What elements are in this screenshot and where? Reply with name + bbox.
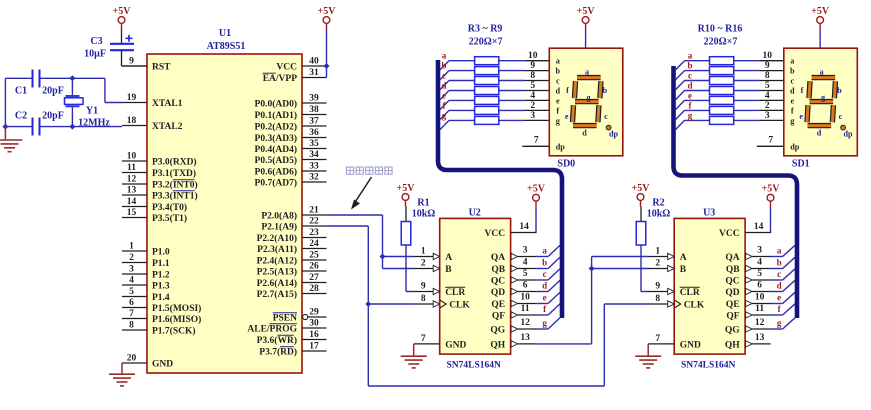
svg-text:A: A [445,253,452,263]
node: ground junction [2,124,8,130]
svg-text:5: 5 [757,269,762,279]
capacitor C2 20pF [15,111,64,136]
svg-text:c: c [790,77,794,86]
svg-text:32: 32 [309,173,319,183]
svg-text:7: 7 [655,334,660,344]
svg-text:QG: QG [490,325,505,335]
svg-text:b: b [556,67,561,76]
svg-text:d: d [582,128,587,137]
svg-text:dp: dp [609,129,619,138]
svg-text:c: c [543,269,547,279]
U1 pin 8 P1.7(SCK) [122,321,196,337]
svg-text:9: 9 [765,61,770,71]
svg-text:SN74LS164N: SN74LS164N [447,360,502,370]
U1 pin 30 ALE/PROG [247,319,326,335]
svg-text:2: 2 [129,253,134,263]
svg-text:P1.7(SCK): P1.7(SCK) [152,325,196,336]
svg-text:18: 18 [127,116,137,126]
resistor row f (SD1) [676,100,784,119]
U3 pin 4 QB [726,258,771,275]
svg-text:8: 8 [765,71,770,81]
svg-text:P3.6(WR): P3.6(WR) [257,335,297,346]
wire net P2.1(A9) clock line [327,226,649,386]
label R3 ~ R9 220ohm x7 [468,24,503,48]
svg-text:P2.3(A11): P2.3(A11) [257,244,297,255]
U3 pin 2 B [649,259,687,275]
svg-text:17: 17 [309,342,319,352]
svg-text:24: 24 [309,239,319,249]
U2 pin 2 B [414,259,452,275]
pin 7 dp stub (SD0) [522,135,549,146]
svg-text:12: 12 [755,318,765,328]
svg-text:e: e [565,112,569,121]
svg-text:f: f [801,86,804,95]
svg-text:9: 9 [655,282,660,292]
svg-text:P1.4: P1.4 [152,293,170,303]
svg-text:QC: QC [725,276,739,286]
U1 pin 3 P1.2 [122,265,170,281]
ground (U1) [109,374,135,386]
svg-text:b: b [837,86,842,95]
svg-text:16: 16 [309,330,319,340]
U2 pin 6 QD [491,281,536,298]
svg-text:10µF: 10µF [84,49,106,60]
resistor row e (SD0) [440,90,549,109]
U1 pin 24 P2.3(A11) [257,239,326,255]
U1 pin 28 P2.7(A15) [257,284,327,300]
svg-text:d: d [441,81,446,91]
U1 pin 1 P1.0 [122,242,170,258]
wire segment QD to bus (d) [536,280,560,291]
svg-text:P1.5(MOSI): P1.5(MOSI) [152,303,201,314]
svg-text:QE: QE [726,300,740,310]
microcontroller U1 AT89S51 [147,28,302,373]
resistor row c (SD0) [440,71,549,90]
svg-text:d: d [556,87,561,96]
svg-text:14: 14 [519,222,529,232]
svg-text:13: 13 [127,186,137,196]
U1 pin 39 P0.0(AD0) [255,94,327,110]
svg-text:7: 7 [534,135,539,145]
shift register U2 SN74LS164N [440,208,511,371]
svg-text:P0.4(AD4): P0.4(AD4) [255,144,297,155]
svg-text:R1: R1 [417,198,429,209]
svg-text:12: 12 [520,318,530,328]
svg-text:QH: QH [490,340,505,350]
svg-text:A: A [680,253,687,263]
+5V power symbol (U1 VCC) [318,6,337,30]
svg-text:3: 3 [757,246,762,256]
resistor row e (SD1) [676,90,784,109]
U1 pin 18 XTAL2 [122,116,183,132]
wire segment QA to bus (a) [536,245,560,256]
svg-text:5: 5 [530,81,535,91]
svg-text:P2.7(A15): P2.7(A15) [257,289,297,300]
U1 pin 4 P1.3 [122,276,170,292]
svg-text:1: 1 [655,247,660,257]
svg-text:3: 3 [523,246,528,256]
node: A/B junction U2 [380,254,386,260]
U3 pin 12 QG [725,318,771,335]
+5V power symbol (SD0 common anode) [577,6,596,30]
svg-text:11: 11 [127,163,136,173]
svg-text:a: a [556,57,560,66]
U1 pin 37 P0.2(AD2) [255,117,327,133]
svg-text:a: a [820,67,824,76]
svg-text:P2.4(A12): P2.4(A12) [257,255,297,266]
U1 pin 10 P3.0(RXD) [122,152,197,168]
svg-text:dp: dp [556,142,566,151]
resistor R2 10k [636,198,670,246]
svg-text:CLR: CLR [680,288,700,298]
7-segment display SD1 [784,48,858,169]
wire +5V to U2 pin 14 [535,207,537,233]
svg-text:VCC: VCC [719,229,740,239]
capacitor C3 10uF polarized [84,35,134,60]
digit segments (SD1) [799,67,853,138]
resistor row b (SD1) [676,61,784,80]
svg-text:+5V: +5V [762,184,781,195]
ground (U3) [635,344,661,368]
U3 pin 10 QE [726,293,771,310]
svg-text:27: 27 [309,273,319,283]
+5V power symbol (SD1 common anode) [811,6,830,30]
node: CLK junction U2 [365,301,371,307]
svg-text:P1.3: P1.3 [152,281,170,291]
svg-text:QD: QD [491,288,505,298]
U3 pin 13 QH [725,333,771,350]
svg-text:6: 6 [757,281,762,291]
svg-text:QC: QC [491,276,505,286]
svg-text:B: B [680,265,687,275]
label R10 ~ R16 220ohm x7 [698,24,743,48]
svg-text:a: a [542,246,547,256]
svg-text:13: 13 [520,333,530,343]
svg-text:40: 40 [309,57,319,67]
wire +5V to SD0 [585,30,587,49]
svg-text:P2.5(A13): P2.5(A13) [257,266,297,277]
svg-text:a: a [585,67,589,76]
svg-text:3: 3 [765,111,770,121]
svg-text:b: b [441,61,446,71]
svg-text:RST: RST [152,62,171,72]
resistor row f (SD0) [440,100,549,119]
svg-text:23: 23 [309,228,319,238]
svg-text:ALE/PROG: ALE/PROG [247,324,297,334]
svg-text:c: c [777,269,781,279]
svg-text:U2: U2 [469,208,481,219]
+5V power symbol (U3 VCC) [762,184,781,208]
svg-text:P3.4(T0): P3.4(T0) [152,202,187,213]
svg-text:14: 14 [754,222,764,232]
wire XTAL top node [5,78,122,102]
U2 pin 10 QE [491,293,536,310]
svg-text:10: 10 [520,293,530,303]
svg-text:GND: GND [445,340,466,350]
svg-text:20pF: 20pF [42,111,64,122]
U1 pin 36 P0.3(AD3) [255,128,327,144]
svg-text:2: 2 [530,101,535,111]
U1 pin 9 RST [122,57,171,73]
svg-text:4: 4 [530,91,535,101]
svg-text:4: 4 [765,91,770,101]
svg-text:XTAL2: XTAL2 [152,122,183,132]
svg-text:QB: QB [491,265,505,275]
wire R2 to CLR [641,245,649,292]
svg-text:CLR: CLR [445,288,465,298]
U1 pin 34 P0.5(AD5) [255,150,327,166]
U1 pin 21 P2.0(A8) [261,206,326,222]
U2 pin 5 QC [491,269,536,286]
svg-text:f: f [566,86,569,95]
U1 pin 32 P0.7(AD7) [255,173,327,189]
wire +5V to SD1 [819,30,821,49]
svg-text:2: 2 [421,259,426,269]
svg-text:XTAL1: XTAL1 [152,99,183,109]
U1 pin 19 XTAL1 [122,93,183,109]
svg-text:d: d [777,281,782,291]
svg-text:11: 11 [755,304,764,314]
svg-text:P0.1(AD1): P0.1(AD1) [255,110,297,121]
wire net P2.0(A8) to U2 A,B [327,215,415,269]
svg-text:39: 39 [309,94,319,104]
pin 7 dp stub (SD1) [757,135,784,146]
svg-text:AT89S51: AT89S51 [207,41,246,52]
U1 pin 7 P1.6(MISO) [122,309,201,325]
svg-text:6: 6 [523,281,528,291]
U1 pin 29 PSEN [273,308,327,324]
capacitor C1 20pF [15,70,64,97]
svg-text:SD1: SD1 [792,159,810,170]
svg-text:SD0: SD0 [557,159,575,170]
resistor row a (SD1) [676,51,784,70]
svg-text:PSEN: PSEN [273,313,297,323]
U2 pin 4 QB [491,258,536,275]
svg-text:b: b [790,67,795,76]
svg-text:29: 29 [309,308,319,318]
resistor row a (SD0) [440,51,549,70]
svg-text:g: g [777,318,782,328]
bus SD0 (U2 outputs to R3-R9) [438,60,562,318]
svg-text:P0.5(AD5): P0.5(AD5) [255,155,297,166]
svg-text:QF: QF [726,311,739,321]
U1 pin 5 P1.4 [122,287,170,303]
svg-text:10: 10 [755,293,765,303]
svg-text:28: 28 [309,284,319,294]
annotation arrow [351,177,372,210]
wire segment QA to bus (a) [771,245,795,256]
svg-text:g: g [688,110,693,120]
U1 pin 38 P0.1(AD1) [255,105,327,121]
svg-text:P0.6(AD6): P0.6(AD6) [255,166,297,177]
wire +5V to U3 pin 14 [770,207,772,233]
svg-text:19: 19 [127,93,137,103]
svg-text:P3.2(INT0): P3.2(INT0) [152,179,198,190]
U1 pin 40 VCC [276,57,326,73]
svg-text:d: d [542,281,547,291]
svg-text:U3: U3 [703,208,715,219]
svg-text:C3: C3 [90,36,102,47]
U1 pin 17 P3.7(RD) [259,342,326,358]
svg-text:QF: QF [492,311,505,321]
svg-text:e: e [442,90,446,100]
svg-text:4: 4 [757,258,762,268]
svg-text:25: 25 [309,251,319,261]
node: crystal bottom junction [69,124,75,130]
svg-text:5: 5 [129,287,134,297]
svg-text:2: 2 [765,101,770,111]
svg-text:c: c [442,71,446,81]
wire segment QG to bus (g) [771,318,795,329]
svg-text:+5V: +5V [632,183,651,194]
svg-text:26: 26 [309,262,319,272]
svg-text:36: 36 [309,128,319,138]
U2 pin 14 VCC [511,222,537,233]
svg-text:QG: QG [725,325,740,335]
svg-text:g: g [542,318,547,328]
+5V power symbol (U2 VCC) [527,184,546,208]
svg-text:P3.3(INT1): P3.3(INT1) [152,190,198,201]
U3 pin 8 CLK [649,294,705,310]
svg-text:9: 9 [530,61,535,71]
svg-text:P1.0: P1.0 [152,247,170,257]
svg-text:4: 4 [523,258,528,268]
svg-text:38: 38 [309,105,319,115]
svg-text:U1: U1 [219,28,231,39]
U3 pin 1 A [649,247,687,263]
svg-text:7: 7 [768,135,773,145]
svg-text:8: 8 [129,321,134,331]
U3 pin 9 CLR [649,282,700,298]
svg-text:EA/VPP: EA/VPP [263,74,298,84]
svg-text:10kΩ: 10kΩ [647,209,671,220]
wire segment QB to bus (b) [536,257,560,268]
svg-text:R3 ~ R9: R3 ~ R9 [468,24,503,35]
U1 pin 25 P2.4(A12) [257,251,327,267]
svg-text:P2.6(A14): P2.6(A14) [257,278,297,289]
svg-text:QE: QE [491,300,505,310]
svg-text:e: e [543,293,547,303]
wire segment QC to bus (c) [771,269,795,280]
svg-text:b: b [687,61,692,71]
svg-text:P3.1(TXD): P3.1(TXD) [152,168,196,179]
resistor row b (SD0) [440,61,549,80]
svg-text:5: 5 [523,269,528,279]
svg-text:SN74LS164N: SN74LS164N [681,360,736,370]
svg-text:10: 10 [763,51,773,61]
svg-text:9: 9 [421,282,426,292]
svg-text:P1.2: P1.2 [152,270,170,280]
svg-text:QA: QA [491,253,505,263]
svg-text:e: e [799,112,803,121]
+5V power symbol (R1) [397,183,416,207]
svg-text:R10 ~ R16: R10 ~ R16 [698,24,743,35]
svg-text:+5V: +5V [527,184,546,195]
svg-text:a: a [442,51,447,61]
svg-text:10: 10 [528,51,538,61]
wire GND pin 20 [121,363,123,374]
svg-text:+5V: +5V [577,6,596,17]
svg-text:dp: dp [790,142,800,151]
ground (crystal circuit) [0,127,23,152]
U1 pin 2 P1.1 [122,253,170,269]
U2 pin 9 CLR [414,282,465,298]
U2 pin 13 QH [490,333,536,350]
resistor row d (SD0) [440,81,549,100]
wire segment QC to bus (c) [536,269,560,280]
svg-text:P2.1(A9): P2.1(A9) [261,221,297,232]
U2 pin 8 CLK [414,294,470,310]
svg-text:14: 14 [127,197,137,207]
svg-text:d: d [687,81,692,91]
svg-text:+5V: +5V [113,6,132,17]
svg-text:VCC: VCC [485,229,506,239]
svg-text:P0.3(AD3): P0.3(AD3) [255,133,297,144]
svg-text:8: 8 [421,294,426,304]
U1 pin 31 EA/VPP [263,68,327,84]
svg-text:P1.1: P1.1 [152,259,170,269]
wire U2 QH to U3 A,B [536,257,649,344]
svg-text:g: g [442,110,447,120]
resistor row c (SD1) [676,71,784,90]
svg-text:6: 6 [129,298,134,308]
svg-text:P1.6(MISO): P1.6(MISO) [152,314,201,325]
+5V power symbol (R2) [632,183,651,207]
U1 pin 15 P3.5(T1) [122,208,187,224]
svg-text:d: d [790,87,795,96]
U1 pin 6 P1.5(MOSI) [122,298,201,314]
svg-text:P3.0(RXD): P3.0(RXD) [152,156,197,167]
wire segment QF to bus (f) [771,304,795,315]
svg-text:Y1: Y1 [86,106,98,117]
svg-text:c: c [604,112,608,121]
svg-text:30: 30 [309,319,319,329]
svg-text:P2.0(A8): P2.0(A8) [261,210,297,221]
svg-text:7: 7 [421,334,426,344]
svg-text:+5V: +5V [318,6,337,17]
U2 pin 1 A [414,247,452,263]
U1 pin 12 P3.2(INT0) [122,175,198,191]
svg-text:+5V: +5V [397,183,416,194]
svg-text:CLK: CLK [449,300,470,310]
svg-text:R2: R2 [652,198,664,209]
svg-text:a: a [777,246,782,256]
svg-text:P2.2(A10): P2.2(A10) [257,233,297,244]
svg-text:P3.7(RD): P3.7(RD) [259,346,297,357]
U1 pin 33 P0.6(AD6) [255,162,327,178]
svg-text:GND: GND [680,340,701,350]
svg-text:P0.0(AD0): P0.0(AD0) [255,98,297,109]
U1 pin 35 P0.4(AD4) [255,139,327,155]
resistor row g (SD0) [440,110,549,129]
U2 pin 7 GND [414,334,467,350]
label: serial data line (Chinese) [347,167,393,174]
svg-text:P0.7(AD7): P0.7(AD7) [255,177,297,188]
svg-text:22: 22 [309,217,319,227]
svg-text:QD: QD [725,288,739,298]
svg-text:c: c [839,112,843,121]
wire segment QE to bus (e) [771,292,795,303]
svg-text:VCC: VCC [276,62,297,72]
svg-text:dp: dp [843,129,853,138]
node: U3 A/B junction [589,266,595,272]
svg-text:20: 20 [127,354,137,364]
svg-text:e: e [777,293,781,303]
svg-text:b: b [777,258,782,268]
svg-text:3: 3 [129,265,134,275]
shift register U3 SN74LS164N [674,208,745,371]
svg-text:8: 8 [530,71,535,81]
